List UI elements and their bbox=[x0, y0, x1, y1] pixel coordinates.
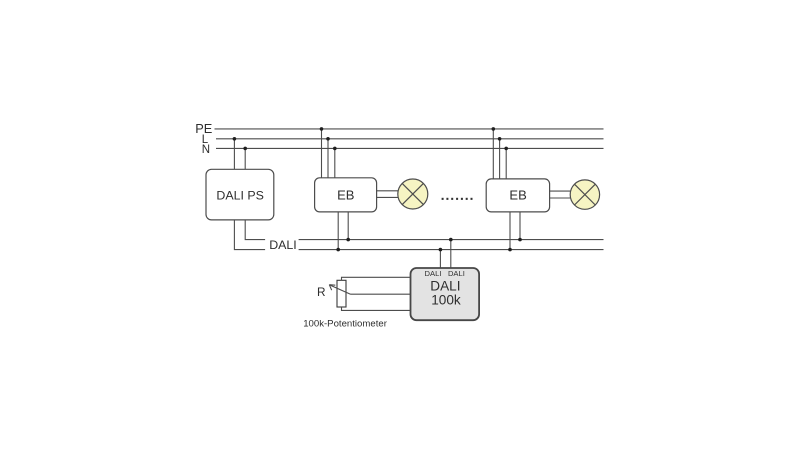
svg-text:EB: EB bbox=[337, 187, 354, 202]
svg-text:DALI: DALI bbox=[448, 269, 465, 278]
svg-text:DALI: DALI bbox=[269, 238, 297, 252]
svg-text:DALI: DALI bbox=[430, 278, 460, 293]
svg-text:R: R bbox=[317, 285, 326, 299]
svg-text:DALI: DALI bbox=[425, 269, 442, 278]
svg-text:DALI PS: DALI PS bbox=[216, 189, 264, 203]
svg-text:100k-Potentiometer: 100k-Potentiometer bbox=[303, 318, 388, 329]
svg-text:EB: EB bbox=[509, 187, 526, 202]
svg-text:N: N bbox=[202, 144, 210, 156]
svg-text:100k: 100k bbox=[431, 292, 461, 307]
